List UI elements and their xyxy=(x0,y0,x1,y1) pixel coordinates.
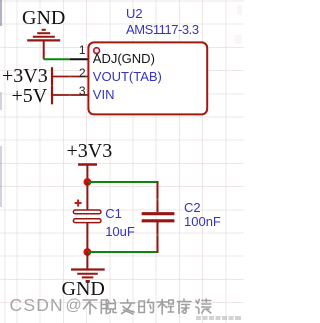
capacitor C2 bottom lead xyxy=(157,222,159,253)
pin number 3 xyxy=(79,84,86,98)
wire +3V3 node to C2 xyxy=(87,181,157,183)
pin 3 VIN lead / wire to +5V xyxy=(52,94,89,96)
value 10uF xyxy=(105,224,135,239)
watermark CSDN xyxy=(10,295,64,316)
pin name ADJ(GND) xyxy=(93,51,155,66)
U2 pin-1 indicator circle xyxy=(94,48,100,54)
value 100nF xyxy=(184,214,221,229)
C1 polarity plus sign xyxy=(75,200,82,207)
watermark CJK glyphs (drawn) xyxy=(0,0,244,323)
designator C2 xyxy=(184,200,201,215)
ground GND (top, inverted power port) xyxy=(27,30,60,60)
capacitor C1 top lead xyxy=(86,182,88,210)
power port +5V bar xyxy=(51,86,53,105)
wire GND to U2 pin 1 xyxy=(44,58,70,60)
pin number 2 xyxy=(79,66,86,80)
capacitor C1 bottom lead xyxy=(86,223,88,252)
capacitor C1 plates xyxy=(73,210,101,223)
pin 3 hot-end dot xyxy=(69,94,71,96)
net label +5V (pin 3) xyxy=(12,85,48,108)
pin 1 ADJ lead xyxy=(70,58,89,60)
C2 pin hot-end dots xyxy=(156,198,158,236)
net label +3V3 (pin 2) xyxy=(2,65,48,88)
net label GND (bottom) xyxy=(62,278,105,301)
capacitor C2 plates xyxy=(142,214,175,221)
ground GND (bottom power port) xyxy=(71,252,105,281)
junction dot (node +3V3) xyxy=(84,178,92,186)
screenshot edge artifacts (left) xyxy=(0,0,2,26)
designator C1 xyxy=(105,206,122,221)
net label GND (top) xyxy=(22,7,65,30)
net label +3V3 (bottom section) xyxy=(67,140,113,163)
wire GND node to C2 xyxy=(87,251,157,253)
junction dot (node GND) xyxy=(84,248,92,256)
power port +3V3 bar xyxy=(51,67,53,86)
capacitor C2 top lead xyxy=(157,181,159,212)
power port +3V3 bar (bottom section) xyxy=(78,163,97,165)
value AMS1117-3.3 xyxy=(126,22,199,37)
pin 2 hot-end dot xyxy=(69,75,71,77)
watermark small text bottom-right xyxy=(0,0,244,323)
pin 2 VOUT lead / wire to +3V3 xyxy=(52,76,89,78)
pin name VOUT(TAB) xyxy=(93,69,162,84)
wire +3V3 stem xyxy=(86,165,88,183)
pin name VIN xyxy=(93,87,115,102)
regulator U2 body xyxy=(88,42,207,114)
pin number 1 xyxy=(79,43,86,57)
designator U2 xyxy=(126,6,143,21)
